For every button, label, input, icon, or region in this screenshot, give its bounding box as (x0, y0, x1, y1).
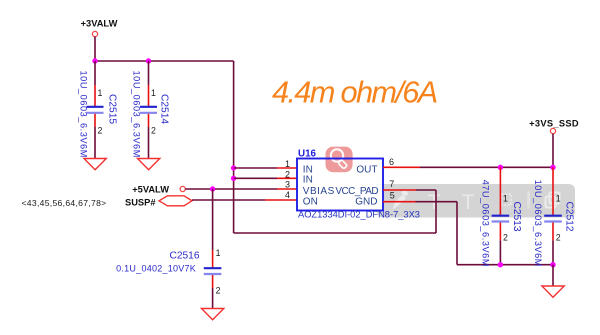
junction C2514 top (146, 58, 151, 63)
svg-text:1: 1 (556, 194, 561, 204)
pin name IN 2 (303, 174, 313, 185)
pin 1 label C2512 (556, 194, 561, 204)
magnifier overlay icon (326, 147, 353, 173)
svg-text:2: 2 (98, 126, 103, 136)
wire pin 6 OUT (383, 166, 553, 168)
wire SUSP# to pin 4 (192, 199, 297, 201)
value C2516 (116, 264, 196, 274)
watermark selection icon (502, 194, 512, 205)
junction C2515 top (92, 58, 97, 63)
pin 1 label C2516 (216, 248, 221, 258)
pin number 6 (389, 157, 394, 167)
wire +3VS_SSD drop (552, 134, 554, 168)
wire IN rail vertical (233, 61, 235, 233)
svg-text:2: 2 (503, 233, 508, 243)
watermark text icon T1 (428, 191, 441, 214)
pin 2 label C2514 (151, 126, 156, 136)
junction C2512 bottom (550, 262, 555, 267)
capacitor C2512 (544, 167, 562, 240)
junction C2513 bottom (498, 262, 503, 267)
svg-text:5: 5 (390, 191, 395, 201)
svg-text:+5VALW: +5VALW (132, 185, 169, 195)
value C2513 (480, 180, 490, 267)
watermark divider (527, 192, 530, 209)
wire C2515 to ground (94, 127, 96, 159)
svg-text:10U_0603_6.3V6M: 10U_0603_6.3V6M (533, 180, 543, 267)
svg-text:6: 6 (389, 157, 394, 167)
svg-text:4: 4 (285, 190, 290, 200)
pin name IN 1 (303, 165, 313, 176)
wire +3VALW drop (94, 37, 96, 61)
wire +5VALW to pin 3 (185, 188, 297, 190)
capacitor C2515 (87, 61, 104, 127)
svg-text:+3VS_SSD: +3VS_SSD (529, 118, 579, 128)
svg-text:2: 2 (151, 126, 156, 136)
junction pin1 row (231, 165, 236, 170)
svg-text:C2516: C2516 (169, 251, 199, 262)
svg-text:C2513: C2513 (511, 202, 522, 232)
wire C2514 to ground (148, 127, 150, 159)
svg-text:4.4m ohm/6A: 4.4m ohm/6A (272, 74, 437, 109)
svg-text:C2512: C2512 (563, 202, 574, 232)
svg-text:T: T (462, 191, 475, 214)
watermark toolbar band (377, 184, 575, 218)
wire pin 7 VCC_PAD (234, 190, 436, 233)
pin name OUT (356, 165, 377, 176)
wire IN rail horizontal (95, 60, 234, 62)
svg-text:10U_0603_6.3V6M: 10U_0603_6.3V6M (79, 71, 89, 158)
svg-text:2: 2 (556, 233, 561, 243)
svg-text:VCC_PAD: VCC_PAD (335, 186, 378, 197)
svg-text:1: 1 (285, 159, 290, 169)
svg-text:SUSP#: SUSP# (125, 198, 156, 208)
svg-text:GND: GND (355, 197, 377, 208)
designator C2515 (107, 94, 118, 124)
pin name ON (303, 197, 318, 208)
junction VBIAS / C2516 (210, 186, 215, 191)
svg-text:ON: ON (303, 197, 318, 208)
offpage connector SUSP# (125, 196, 192, 208)
capacitor C2513 (492, 167, 510, 240)
wire to pin 1 (234, 167, 297, 169)
pin number 1 (285, 159, 290, 169)
svg-text:U16: U16 (298, 148, 317, 159)
svg-text:VBIAS: VBIAS (303, 186, 335, 197)
capacitor C2514 (140, 61, 157, 127)
power symbol +3VS_SSD (529, 118, 579, 133)
svg-text:7: 7 (389, 179, 394, 189)
pin 1 label C2515 (98, 88, 103, 98)
wire pin 5 GND (383, 202, 553, 265)
power symbol +5VALW (132, 185, 185, 195)
pin number 2 (285, 170, 290, 180)
svg-text:2: 2 (216, 286, 221, 296)
power symbol +3VALW (81, 19, 118, 37)
svg-text:IN: IN (303, 174, 313, 185)
designator C2516 (169, 251, 199, 262)
designator C2512 (563, 202, 574, 232)
wire to pin 2 (234, 177, 297, 179)
svg-text:47U_0603_6.3V6M: 47U_0603_6.3V6M (480, 180, 490, 267)
IC U16 body (297, 159, 383, 211)
watermark text icon T2 (462, 191, 475, 214)
pin 1 label C2514 (151, 88, 156, 98)
junction pin2 row (231, 176, 236, 181)
svg-text:+3VALW: +3VALW (81, 19, 118, 29)
svg-text:10U_0603_6.3V6M: 10U_0603_6.3V6M (132, 71, 142, 158)
value C2515 (79, 71, 89, 158)
svg-text:1: 1 (216, 248, 221, 258)
pin 2 label C2513 (503, 233, 508, 243)
ground under C2515 (84, 159, 106, 170)
designator C2513 (511, 202, 522, 232)
reference U16 (298, 148, 317, 159)
value AOZ1334DI-02_DFN8-7_3X3 (298, 209, 420, 219)
svg-text:OUT: OUT (356, 165, 377, 176)
svg-text:1: 1 (151, 88, 156, 98)
ground right (542, 286, 564, 297)
annotation 4.4m ohm/6A (272, 74, 437, 109)
svg-text:0.1U_0402_10V7K: 0.1U_0402_10V7K (116, 264, 196, 274)
pin number 5 (390, 191, 395, 201)
pin name VCC_PAD (335, 186, 378, 197)
wire C2516 to ground (212, 288, 214, 309)
pin name VBIAS (303, 186, 335, 197)
ground under C2516 (202, 309, 224, 320)
svg-text:C2514: C2514 (159, 94, 170, 124)
pin number 7 (389, 179, 394, 189)
pin 2 label C2512 (556, 233, 561, 243)
value C2512 (533, 180, 543, 267)
svg-text:<43,45,56,64,67,78>: <43,45,56,64,67,78> (21, 198, 106, 208)
pin 2 label C2516 (216, 286, 221, 296)
wire GND rail to ground (552, 265, 554, 286)
page refs for SUSP# (21, 198, 106, 208)
junction C2513 top (498, 165, 503, 170)
value C2514 (132, 71, 142, 158)
watermark pencil icon (393, 190, 409, 210)
IC U16 body fill (297, 159, 383, 211)
ground under C2514 (138, 159, 160, 170)
capacitor C2516 (204, 268, 222, 288)
pin 1 label C2513 (503, 194, 508, 204)
wire C2516 top (212, 189, 214, 268)
svg-text:3: 3 (285, 180, 290, 190)
svg-text:C2515: C2515 (107, 94, 118, 124)
wire C2512 bottom (552, 240, 554, 264)
svg-text:1: 1 (503, 194, 508, 204)
svg-text:AOZ1334DI-02_DFN8-7_3X3: AOZ1334DI-02_DFN8-7_3X3 (298, 209, 420, 219)
junction C2512 top (550, 165, 555, 170)
watermark copy icon (546, 193, 560, 208)
pin name GND (355, 197, 377, 208)
svg-text:1: 1 (98, 88, 103, 98)
pin 2 label C2515 (98, 126, 103, 136)
pin number 3 (285, 180, 290, 190)
pin number 4 (285, 190, 290, 200)
designator C2514 (159, 94, 170, 124)
wire C2513 bottom (499, 240, 501, 264)
svg-text:2: 2 (285, 170, 290, 180)
